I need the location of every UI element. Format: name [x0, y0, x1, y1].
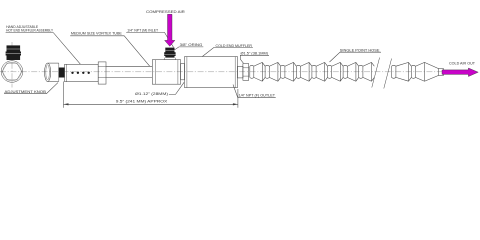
svg-text:1/4" NPT (M) INLET: 1/4" NPT (M) INLET	[127, 29, 159, 33]
svg-text:SINGLE POINT HOSE: SINGLE POINT HOSE	[340, 48, 380, 52]
svg-text:COMPRESSED AIR: COMPRESSED AIR	[146, 10, 185, 14]
svg-text:ADJUSTMENT KNOB: ADJUSTMENT KNOB	[5, 90, 47, 94]
svg-text:COLD AIR OUT: COLD AIR OUT	[449, 62, 476, 66]
svg-text:9.5" (241 MM) APPROX: 9.5" (241 MM) APPROX	[116, 100, 168, 104]
svg-text:Ø1.5" (38.1MM): Ø1.5" (38.1MM)	[241, 51, 269, 55]
svg-text:COLD END MUFFLER: COLD END MUFFLER	[216, 44, 253, 48]
svg-text:1/4" NPT (F) OUTLET: 1/4" NPT (F) OUTLET	[239, 94, 276, 98]
svg-text:3/8" ORING: 3/8" ORING	[180, 43, 203, 47]
svg-text:Ø1.12" (28MM): Ø1.12" (28MM)	[135, 92, 168, 96]
svg-text:HOT END MUFFLER ASSEMBLY: HOT END MUFFLER ASSEMBLY	[6, 29, 54, 33]
svg-text:MEDIUM SIZE VORTEX TUBE: MEDIUM SIZE VORTEX TUBE	[71, 32, 123, 36]
